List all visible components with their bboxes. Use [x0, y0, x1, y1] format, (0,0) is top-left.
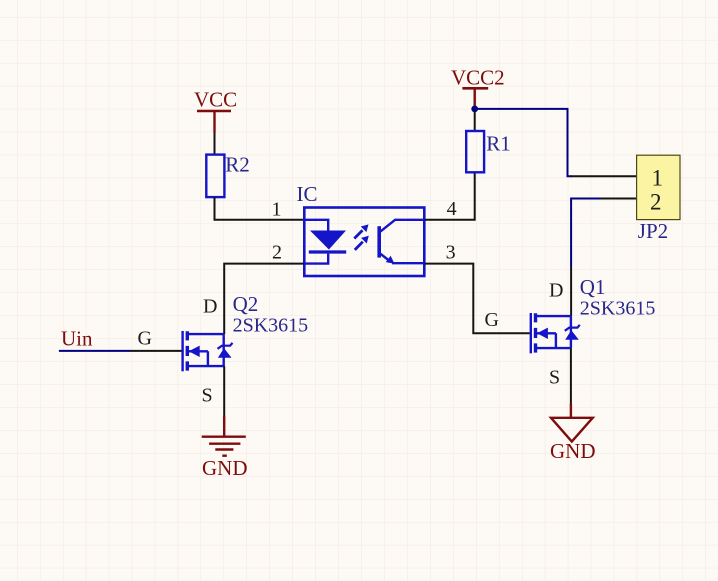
wire Q2 drain black	[223, 333, 225, 335]
wire Q1 drain pin black	[570, 266, 572, 316]
svg-text:GND: GND	[550, 439, 596, 463]
Q2 body diode triangle	[218, 348, 232, 358]
svg-text:2SK3615: 2SK3615	[580, 297, 656, 319]
Q2 source lead	[188, 365, 224, 367]
Q1 mid tap	[536, 333, 556, 348]
optocoupler IC LED triangle	[310, 231, 346, 250]
Q1 body diode zener bar	[565, 325, 580, 331]
Q1 vertical drain-source bar	[570, 316, 572, 348]
optocoupler IC phototransistor base bar	[377, 226, 381, 257]
optocoupler IC light arrow upper	[354, 224, 368, 238]
power port GND right triangle	[551, 418, 593, 442]
svg-text:G: G	[485, 309, 499, 331]
ground earth symbol left	[202, 416, 246, 456]
Q2 vertical drain-source bar	[222, 334, 224, 366]
power port VCC2 stub	[474, 88, 476, 107]
wire VCC to R2	[214, 133, 216, 155]
Q2 channel segments	[186, 331, 189, 370]
Q1 body diode triangle	[565, 330, 579, 340]
optocoupler IC phototransistor emitter	[381, 254, 390, 261]
svg-text:D: D	[549, 280, 563, 302]
wire Q2 gate pin	[130, 350, 182, 352]
power port GND right stub	[570, 404, 572, 418]
wire IC pin 4 to R1	[425, 172, 475, 220]
Q1 substrate arrow	[537, 328, 548, 339]
Q1 source lead	[536, 347, 571, 349]
wire Q2 source to ground	[223, 366, 225, 415]
svg-text:GND: GND	[202, 456, 248, 480]
wire IC pin 3 to Q1 gate	[425, 264, 530, 334]
svg-text:4: 4	[447, 198, 457, 220]
optocoupler IC LED anode lead	[305, 220, 328, 231]
svg-text:1: 1	[652, 166, 664, 191]
svg-text:S: S	[202, 385, 213, 407]
svg-text:Uin: Uin	[61, 327, 93, 351]
optocoupler IC phototransistor emitter lead	[392, 262, 424, 264]
wire Q1 source to ground	[570, 348, 572, 403]
wire R2 to IC pin 1	[215, 197, 305, 220]
power port VCC bar symbol	[197, 110, 231, 113]
optocoupler IC LED cathode bar	[309, 250, 346, 253]
power port VCC2 bar symbol	[462, 87, 488, 90]
junction dot VCC2 node	[471, 106, 478, 113]
connector JP2 box	[637, 155, 680, 219]
transistor Q1 MOSFET symbol	[531, 313, 580, 353]
svg-text:1: 1	[272, 198, 282, 220]
svg-text:2: 2	[272, 242, 282, 264]
svg-text:IC: IC	[297, 182, 318, 206]
wire Uin to Q2 gate	[59, 350, 130, 352]
optocoupler IC light arrow lower	[355, 236, 369, 250]
wire VCC2 node to R1	[474, 107, 476, 131]
svg-text:R2: R2	[225, 153, 250, 177]
Q2 body diode zener bar	[218, 343, 233, 349]
resistor R1 body	[466, 131, 484, 172]
svg-text:VCC: VCC	[194, 88, 237, 112]
optocoupler IC box	[304, 208, 424, 277]
Q1 drain lead	[536, 315, 571, 317]
Q2 mid tap	[188, 351, 208, 366]
optocoupler IC phototransistor emitter arrowhead	[386, 256, 395, 264]
svg-text:2SK3615: 2SK3615	[233, 314, 309, 336]
wire IC pin 2 to Q2 drain	[224, 264, 304, 335]
wire VCC2 node to JP2 pin 1	[475, 109, 572, 176]
Q2 gate bar	[181, 331, 183, 371]
optocoupler IC LED cathode lead	[305, 254, 328, 264]
svg-text:G: G	[138, 328, 152, 350]
svg-text:R1: R1	[486, 132, 511, 156]
transistor Q2 MOSFET symbol	[183, 331, 233, 371]
Q1 gate bar	[530, 313, 532, 353]
wire JP2 pin 2 to Q1 drain	[571, 199, 602, 267]
Q1 channel segments	[534, 313, 537, 352]
power port VCC stub	[213, 111, 215, 133]
resistor R2 body	[206, 155, 224, 198]
svg-text:Q2: Q2	[233, 292, 259, 316]
svg-text:VCC2: VCC2	[451, 65, 505, 89]
svg-text:Q1: Q1	[580, 275, 606, 299]
svg-text:D: D	[203, 296, 217, 318]
svg-text:3: 3	[446, 242, 456, 264]
svg-text:2: 2	[650, 189, 662, 214]
svg-text:S: S	[549, 366, 560, 388]
optocoupler IC phototransistor collector	[381, 220, 425, 232]
svg-text:JP2: JP2	[638, 219, 668, 243]
Q2 drain lead	[188, 333, 224, 335]
Q2 substrate arrow	[189, 346, 200, 357]
